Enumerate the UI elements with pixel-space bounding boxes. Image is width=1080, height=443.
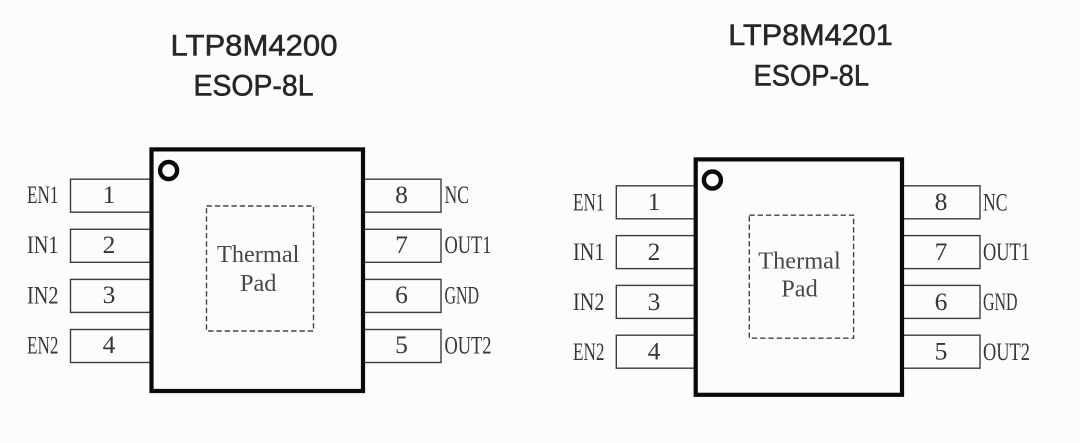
pin 1 box (right IC) bbox=[616, 186, 696, 219]
svg-text:EN2: EN2 bbox=[573, 337, 605, 366]
svg-text:4: 4 bbox=[648, 337, 661, 366]
svg-text:7: 7 bbox=[935, 237, 948, 266]
pin 7 box (right IC) bbox=[902, 236, 980, 269]
pin 5 box (right IC) bbox=[902, 335, 980, 368]
svg-text:2: 2 bbox=[103, 230, 116, 259]
svg-text:Pad: Pad bbox=[781, 276, 818, 303]
pin 3 box (left IC) bbox=[71, 279, 152, 312]
svg-text:5: 5 bbox=[935, 337, 948, 366]
svg-text:Thermal: Thermal bbox=[758, 248, 841, 275]
svg-text:8: 8 bbox=[395, 180, 408, 209]
svg-text:LTP8M4201: LTP8M4201 bbox=[728, 19, 893, 52]
IC body LTP8M4200 (ESOP-8L package outline) bbox=[152, 149, 364, 391]
svg-text:LTP8M4200: LTP8M4200 bbox=[171, 30, 338, 63]
svg-text:Pad: Pad bbox=[240, 270, 277, 297]
pin 8 box (left IC) bbox=[361, 179, 441, 212]
thermal pad (right IC, dashed) bbox=[749, 215, 853, 338]
pin 1 box (left IC) bbox=[71, 179, 152, 212]
pin 1 indicator circle (left IC) bbox=[160, 162, 177, 179]
svg-text:EN1: EN1 bbox=[27, 180, 59, 209]
pin 1 indicator circle (right IC) bbox=[704, 172, 721, 189]
svg-text:5: 5 bbox=[395, 330, 408, 359]
pin 6 box (left IC) bbox=[361, 279, 441, 312]
pin 8 box (right IC) bbox=[902, 186, 980, 219]
pin 7 box (left IC) bbox=[361, 229, 441, 262]
svg-text:GND: GND bbox=[983, 287, 1018, 316]
svg-text:8: 8 bbox=[935, 187, 948, 216]
svg-text:OUT2: OUT2 bbox=[983, 337, 1030, 366]
svg-text:3: 3 bbox=[648, 287, 661, 316]
pin 4 box (right IC) bbox=[616, 335, 696, 368]
svg-text:7: 7 bbox=[395, 230, 408, 259]
svg-text:IN1: IN1 bbox=[573, 237, 605, 266]
svg-text:EN2: EN2 bbox=[27, 330, 59, 359]
svg-text:Thermal: Thermal bbox=[217, 241, 300, 268]
svg-text:6: 6 bbox=[395, 280, 408, 309]
svg-text:1: 1 bbox=[103, 180, 116, 209]
svg-text:NC: NC bbox=[445, 180, 470, 209]
pin 3 box (right IC) bbox=[616, 285, 696, 318]
svg-text:1: 1 bbox=[648, 187, 661, 216]
pin 2 box (right IC) bbox=[616, 236, 696, 269]
pin 4 box (left IC) bbox=[71, 330, 152, 363]
pin 5 box (left IC) bbox=[361, 330, 441, 363]
svg-text:IN2: IN2 bbox=[573, 287, 605, 316]
svg-text:OUT1: OUT1 bbox=[983, 237, 1030, 266]
thermal pad (left IC, dashed) bbox=[207, 206, 314, 331]
svg-text:IN2: IN2 bbox=[27, 280, 59, 309]
IC body LTP8M4201 (ESOP-8L package outline) bbox=[696, 159, 902, 394]
svg-text:4: 4 bbox=[103, 330, 116, 359]
pin 2 box (left IC) bbox=[71, 229, 152, 262]
svg-text:OUT2: OUT2 bbox=[445, 330, 492, 359]
svg-text:ESOP-8L: ESOP-8L bbox=[194, 70, 314, 103]
svg-text:GND: GND bbox=[445, 280, 480, 309]
pin 6 box (right IC) bbox=[902, 285, 980, 318]
svg-text:EN1: EN1 bbox=[573, 187, 605, 216]
svg-text:OUT1: OUT1 bbox=[445, 230, 492, 259]
svg-text:6: 6 bbox=[935, 287, 948, 316]
svg-text:NC: NC bbox=[983, 187, 1008, 216]
svg-text:ESOP-8L: ESOP-8L bbox=[754, 60, 870, 93]
svg-text:3: 3 bbox=[103, 280, 116, 309]
svg-text:2: 2 bbox=[648, 237, 661, 266]
svg-text:IN1: IN1 bbox=[27, 230, 59, 259]
